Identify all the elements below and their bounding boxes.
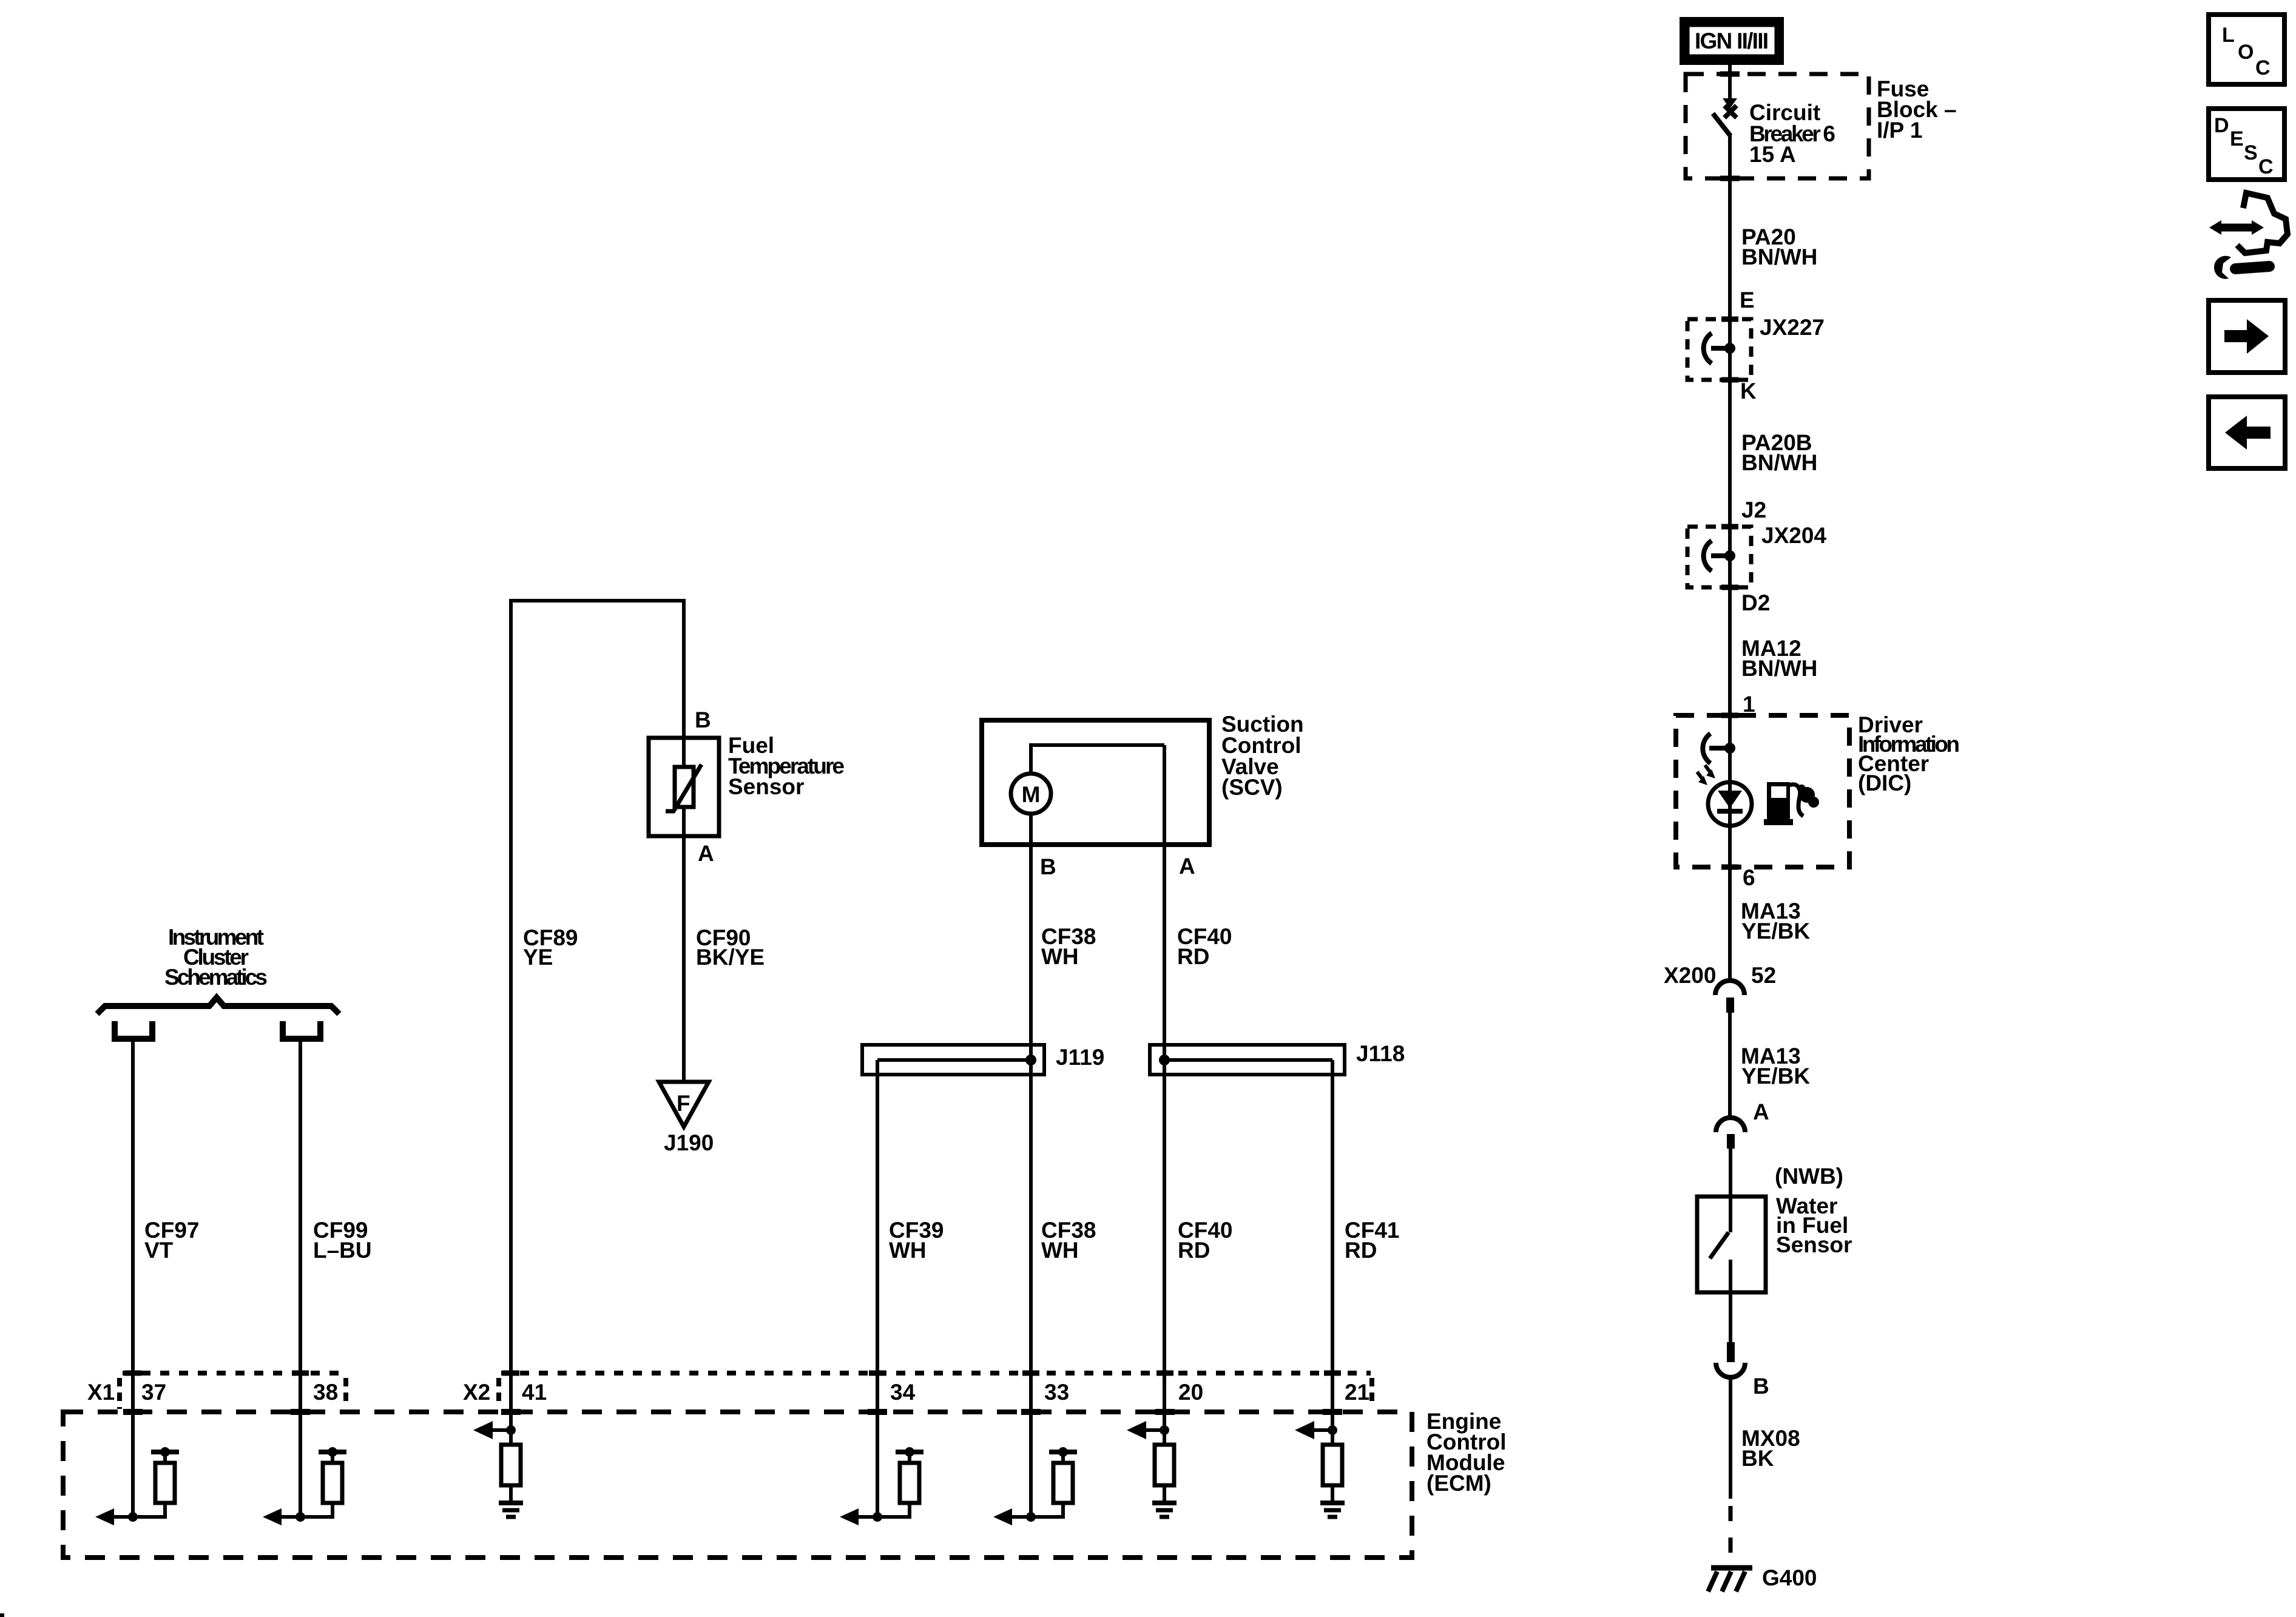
fuse block dashed box — [1686, 74, 1869, 178]
ECM internal circuit at pin 41 — [473, 1421, 523, 1517]
crossing stubs on fuse block border — [1720, 74, 1740, 178]
dashed wire to ground G400 — [1729, 1506, 1733, 1567]
svg-text:K: K — [1740, 379, 1757, 403]
label Driver Information Center (DIC) — [1858, 712, 1960, 795]
wire from IGN into circuit breaker — [1728, 64, 1732, 100]
label CF38 WH (lower) — [1041, 1218, 1096, 1263]
ECM internal circuit at pin 20 — [1127, 1421, 1177, 1517]
svg-text:X1: X1 — [87, 1380, 115, 1405]
DESC reference box — [2209, 109, 2284, 180]
svg-text:RD: RD — [1178, 1238, 1210, 1263]
svg-text:J119: J119 — [1056, 1045, 1104, 1070]
svg-text:38: 38 — [313, 1380, 338, 1405]
fuel temperature sensor box — [649, 738, 719, 836]
ground J190 (triangle with F) — [659, 1082, 709, 1127]
svg-text:Sensor: Sensor — [1776, 1232, 1852, 1257]
wire CF38 WH from SCV pin B through J119 to ECM pin 33 — [1029, 814, 1033, 1517]
label CF99 L-BU — [313, 1218, 372, 1263]
wire MA13 YE/BK (lower) — [1728, 1013, 1732, 1118]
svg-text:VT: VT — [144, 1238, 174, 1263]
svg-text:YE/BK: YE/BK — [1741, 1064, 1810, 1089]
svg-text:X2: X2 — [463, 1380, 490, 1405]
svg-text:WH: WH — [889, 1238, 927, 1263]
svg-text:D2: D2 — [1741, 590, 1770, 615]
ECM internal circuit at pin 38 — [263, 1447, 346, 1525]
svg-text:I/P 1: I/P 1 — [1877, 118, 1922, 143]
wire CF40 RD from SCV pin A through J118 to ECM pin 20 — [1163, 745, 1166, 1430]
ECM internal circuit at pin 34 — [840, 1447, 923, 1525]
svg-text:J190: J190 — [664, 1130, 714, 1155]
in-line connector B — [1716, 1342, 1745, 1377]
label MA12 BN/WH — [1741, 636, 1817, 681]
label Water in Fuel Sensor — [1776, 1193, 1852, 1257]
wire CF97 VT from cluster to ECM pin 37 — [131, 1039, 135, 1517]
connector strip X1 (dotted) — [120, 1373, 346, 1409]
label Engine Control Module (ECM) — [1427, 1409, 1507, 1496]
svg-text:JX204: JX204 — [1761, 523, 1826, 548]
water in fuel sensor box — [1697, 1197, 1766, 1292]
J119 internal bus wire — [877, 1058, 1031, 1062]
svg-text:37: 37 — [141, 1380, 166, 1405]
label Instrument Cluster Schematics — [164, 925, 268, 990]
connector JX204 dashed box — [1687, 527, 1751, 587]
svg-text:(ECM): (ECM) — [1427, 1471, 1491, 1496]
svg-text:YE: YE — [523, 945, 553, 970]
svg-text:B: B — [1753, 1374, 1769, 1399]
svg-text:BK/YE: BK/YE — [696, 945, 765, 970]
label CF97 VT — [144, 1218, 199, 1263]
svg-text:1: 1 — [1743, 692, 1755, 717]
svg-text:G400: G400 — [1762, 1565, 1817, 1590]
ECM internal circuit at pin 33 — [993, 1447, 1077, 1525]
svg-text:6: 6 — [1743, 865, 1755, 890]
label Fuel Temperature Sensor — [728, 733, 845, 799]
wire CF39 WH from J119 to ECM pin 34 — [876, 1060, 879, 1517]
J118 internal bus wire — [1164, 1058, 1332, 1062]
svg-text:BK: BK — [1741, 1446, 1774, 1471]
fuel pump icon inside DIC — [1764, 782, 1819, 825]
svg-text:RD: RD — [1345, 1238, 1377, 1263]
svg-text:D: D — [2214, 114, 2229, 137]
DIC internal connector symbol — [1703, 734, 1735, 763]
connector strip X2 (dotted) — [499, 1373, 1372, 1406]
svg-text:Schematics: Schematics — [164, 965, 268, 990]
svg-text:RD: RD — [1177, 944, 1209, 969]
wire PA20 BN/WH — [1728, 135, 1732, 319]
wire crossing stubs at connector strips — [124, 1371, 1341, 1376]
thermistor symbol inside fuel temperature sensor — [666, 738, 701, 836]
label CF40 RD (upper) — [1177, 924, 1232, 969]
svg-text:(NWB): (NWB) — [1775, 1164, 1843, 1189]
connector to instrument cluster (right, CF99) — [283, 1021, 320, 1039]
svg-text:33: 33 — [1044, 1380, 1069, 1405]
svg-text:L: L — [2222, 24, 2235, 47]
splice pack J118 — [1150, 1045, 1345, 1075]
indicator LED inside DIC — [1697, 765, 1752, 826]
wire CF99 L-BU from cluster to ECM pin 38 — [299, 1039, 302, 1517]
SCV internal circuit loop — [1031, 745, 1164, 774]
svg-text:YE/BK: YE/BK — [1741, 919, 1810, 944]
svg-text:L–BU: L–BU — [313, 1238, 372, 1263]
wire MX08 BK — [1729, 1377, 1732, 1499]
ECM internal circuit at pin 21 — [1295, 1421, 1345, 1517]
ECM internal circuit at pin 37 — [95, 1447, 179, 1525]
wire through DIC — [1728, 715, 1732, 981]
svg-text:JX227: JX227 — [1760, 315, 1825, 340]
service/adjust icon (arrows and wrench) — [2209, 193, 2288, 279]
forward arrow reference box — [2209, 300, 2285, 373]
crossing stubs on JX227 border — [1721, 319, 1738, 380]
connector to instrument cluster (left, CF97) — [115, 1021, 152, 1039]
label Fuse Block - I/P 1 — [1877, 76, 1957, 143]
svg-text:41: 41 — [522, 1380, 547, 1405]
svg-text:BN/WH: BN/WH — [1741, 450, 1817, 475]
JX204 in-line connector symbol — [1704, 541, 1735, 571]
JX227 in-line connector symbol — [1704, 333, 1735, 363]
svg-text:B: B — [695, 707, 711, 732]
svg-text:J2: J2 — [1741, 498, 1766, 522]
label MX08 BK — [1741, 1426, 1800, 1471]
switch inside water in fuel sensor — [1710, 1232, 1730, 1342]
svg-text:C: C — [2255, 56, 2271, 79]
DIC dashed box — [1676, 715, 1849, 867]
svg-text:A: A — [1753, 1099, 1769, 1124]
circuit breaker CB6 symbol — [1713, 98, 1737, 136]
page mark bottom left — [0, 1613, 4, 1617]
junction dot J119 — [1025, 1055, 1036, 1065]
splice pack J119 — [862, 1045, 1044, 1075]
svg-text:C: C — [2258, 155, 2274, 178]
label CF89 YE — [523, 925, 578, 970]
ground G400 symbol — [1708, 1568, 1752, 1592]
svg-text:Sensor: Sensor — [728, 774, 804, 799]
svg-text:WH: WH — [1041, 1238, 1079, 1263]
svg-text:52: 52 — [1751, 963, 1776, 988]
wire CF89 YE from ECM pin 41 up and over to sensor pin B — [511, 601, 684, 1430]
wire CF41 RD from J118 to ECM pin 21 — [1331, 1060, 1334, 1430]
svg-text:BN/WH: BN/WH — [1741, 245, 1817, 269]
label CF90 BK/YE — [696, 925, 765, 970]
svg-text:IGN II/III: IGN II/III — [1695, 29, 1769, 53]
brace under Instrument Cluster Schematics — [97, 998, 339, 1014]
wire crossing stubs at ECM border — [123, 1409, 1342, 1415]
connector JX227 dashed box — [1687, 319, 1751, 380]
in-line connector X200 — [1715, 981, 1744, 1013]
label CF38 WH (upper) — [1041, 924, 1096, 969]
svg-text:BN/WH: BN/WH — [1741, 656, 1817, 681]
svg-text:20: 20 — [1178, 1380, 1203, 1405]
label MA13 YE/BK (lower) — [1741, 1044, 1810, 1089]
junction dot J118 — [1159, 1055, 1170, 1065]
wire CF90 BK/YE from sensor pin A to ground J190 — [682, 836, 686, 1082]
svg-text:34: 34 — [890, 1380, 916, 1405]
svg-text:15 A: 15 A — [1749, 142, 1796, 167]
svg-text:M: M — [1022, 782, 1041, 807]
svg-text:WH: WH — [1041, 944, 1079, 969]
label PA20B BN/WH — [1741, 430, 1817, 475]
crossing stubs on JX204 border — [1721, 527, 1738, 587]
wire PA20B BN/WH — [1728, 319, 1732, 527]
LOC reference box — [2209, 15, 2284, 84]
label Suction Control Valve (SCV) — [1221, 712, 1304, 800]
svg-text:E: E — [2230, 127, 2244, 150]
svg-text:E: E — [1740, 288, 1755, 312]
svg-text:(SCV): (SCV) — [1221, 775, 1283, 800]
suction control valve (SCV) box — [982, 720, 1209, 845]
svg-text:(DIC): (DIC) — [1858, 771, 1911, 795]
back arrow reference box — [2209, 397, 2285, 468]
svg-text:F: F — [677, 1091, 690, 1116]
svg-text:21: 21 — [1345, 1380, 1369, 1405]
label PA20 BN/WH — [1741, 224, 1817, 269]
label CF40 RD (lower) — [1178, 1218, 1232, 1263]
label CF41 RD — [1345, 1218, 1399, 1263]
IGN II/III power badge — [1680, 17, 1784, 65]
label CF39 WH — [889, 1218, 944, 1263]
wire MA12 BN/WH — [1728, 527, 1732, 715]
label MA13 YE/BK (upper) — [1741, 899, 1810, 944]
in-line connector A — [1716, 1118, 1745, 1149]
svg-text:J118: J118 — [1356, 1041, 1405, 1066]
svg-text:O: O — [2238, 41, 2254, 64]
wire from connector A to water in fuel sensor — [1729, 1149, 1732, 1232]
motor M inside SCV — [1011, 774, 1051, 814]
label Circuit Breaker 6 15 A — [1749, 100, 1835, 167]
svg-text:A: A — [698, 841, 714, 866]
svg-text:A: A — [1179, 854, 1195, 879]
svg-text:X200: X200 — [1664, 963, 1716, 988]
svg-text:S: S — [2244, 141, 2258, 164]
crossing stubs on DIC border — [1721, 715, 1738, 867]
svg-text:B: B — [1040, 854, 1056, 879]
ECM dashed box — [63, 1412, 1412, 1558]
wire MA13 YE/BK (upper) — [1728, 867, 1732, 981]
